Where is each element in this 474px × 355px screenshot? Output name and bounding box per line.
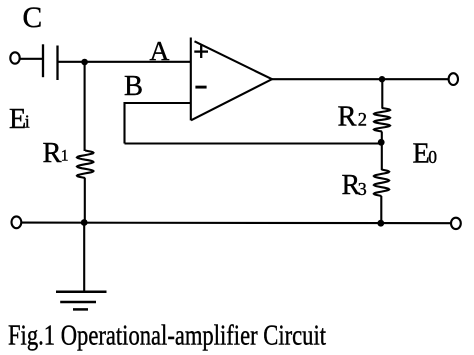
- ground wire: [83, 223, 85, 291]
- wire terminal to capacitor: [20, 58, 42, 60]
- svg-text:A: A: [150, 35, 170, 66]
- wire feedback vertical: [123, 102, 125, 144]
- resistor R2: [374, 108, 390, 132]
- junction dot bottom rail / R1 / ground: [81, 219, 88, 226]
- wire feedback horizontal B to R2/R3 node: [125, 142, 382, 144]
- wire R2 top: [381, 79, 383, 108]
- wire R1 bottom: [84, 178, 86, 223]
- resistor R1: [77, 151, 93, 179]
- bottom-left terminal: [12, 216, 22, 228]
- wire R3 bottom: [380, 196, 382, 223]
- junction dot output/R2: [379, 76, 385, 82]
- ground symbol line 3: [73, 308, 88, 311]
- wire node A: capacitor to op-amp + input: [59, 61, 192, 63]
- wire op-amp output: [271, 78, 449, 80]
- svg-text:1: 1: [61, 148, 69, 165]
- bottom rail wire: [22, 222, 451, 225]
- svg-text:3: 3: [358, 179, 367, 199]
- op-amp - input sign: [195, 86, 206, 89]
- op-amp U1 triangle left edge: [190, 38, 192, 121]
- svg-text:R: R: [43, 138, 62, 169]
- wire node A down to R1: [84, 62, 86, 151]
- svg-text:2: 2: [358, 111, 367, 131]
- node A junction dot: [81, 59, 88, 66]
- output terminal E0 (top right): [449, 73, 458, 85]
- wire op-amp - input: [125, 102, 192, 104]
- ground symbol line 2: [60, 301, 96, 304]
- capacitor C right plate: [56, 46, 58, 81]
- op-amp + input sign: [194, 50, 208, 52]
- svg-text:C: C: [23, 2, 43, 34]
- svg-text:E: E: [9, 104, 26, 135]
- junction dot R2/R3 node: [378, 139, 385, 146]
- ground symbol line 1: [56, 290, 107, 293]
- op-amp U1 triangle diagonals: [191, 41, 272, 120]
- bottom-right terminal: [451, 218, 461, 229]
- input terminal Ei (top left): [10, 52, 19, 63]
- svg-text:R: R: [338, 102, 357, 133]
- svg-text:i: i: [25, 112, 30, 132]
- svg-text:Fig.1 Operational-amplifier Ci: Fig.1 Operational-amplifier Circuit: [8, 319, 326, 351]
- capacitor C left plate: [42, 44, 44, 77]
- svg-text:E: E: [413, 139, 430, 170]
- svg-text:B: B: [124, 71, 143, 102]
- svg-text:0: 0: [428, 147, 437, 167]
- wire R3 top: [381, 144, 383, 171]
- resistor R3: [374, 170, 389, 197]
- wire R2 bottom: [381, 132, 383, 144]
- junction dot bottom rail / R3: [377, 220, 384, 227]
